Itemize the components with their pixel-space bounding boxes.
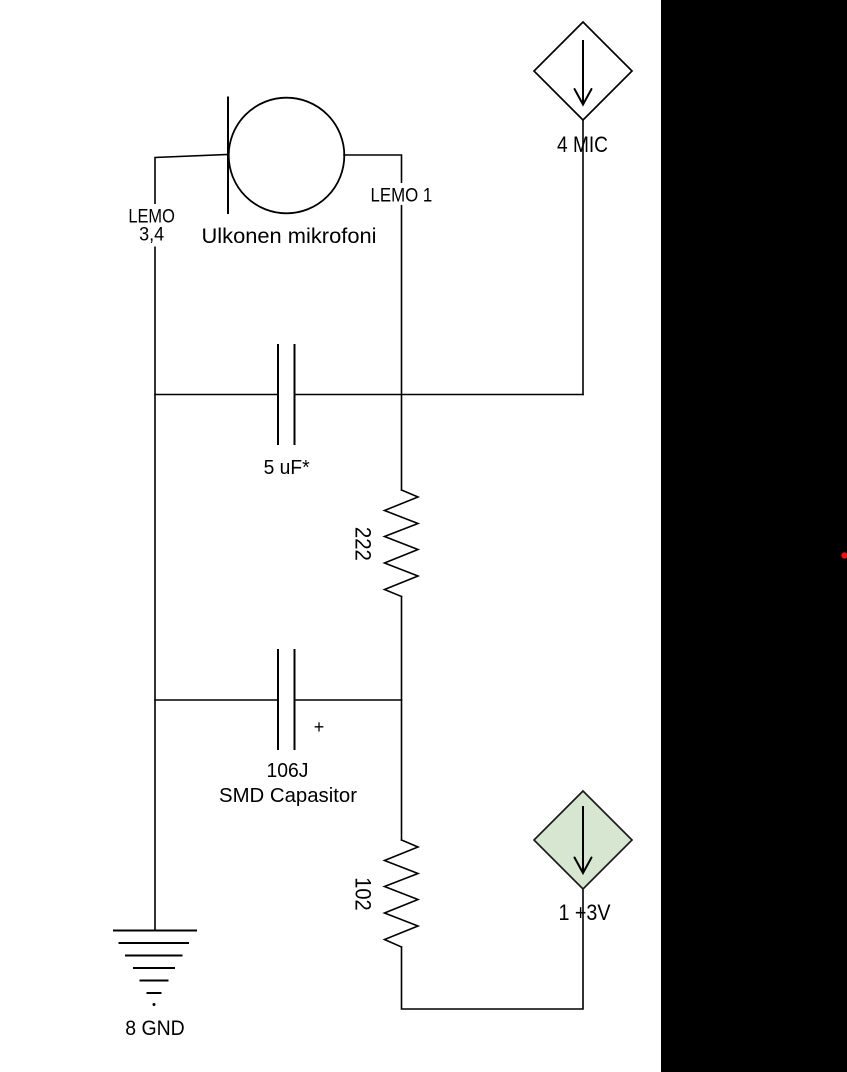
- svg-text:LEMO 1: LEMO 1: [371, 185, 433, 206]
- svg-text:3,4: 3,4: [139, 224, 164, 245]
- svg-text:SMD Capasitor: SMD Capasitor: [219, 785, 357, 807]
- svg-text:1 +3V: 1 +3V: [559, 900, 611, 925]
- svg-text:106J: 106J: [267, 759, 309, 782]
- svg-text:222: 222: [351, 527, 376, 561]
- svg-text:+: +: [314, 717, 325, 737]
- svg-text:5 uF*: 5 uF*: [264, 456, 310, 479]
- svg-text:Ulkonen mikrofoni: Ulkonen mikrofoni: [202, 225, 377, 248]
- svg-text:8 GND: 8 GND: [125, 1016, 185, 1040]
- svg-text:4 MIC: 4 MIC: [557, 132, 608, 157]
- svg-text:102: 102: [351, 877, 376, 911]
